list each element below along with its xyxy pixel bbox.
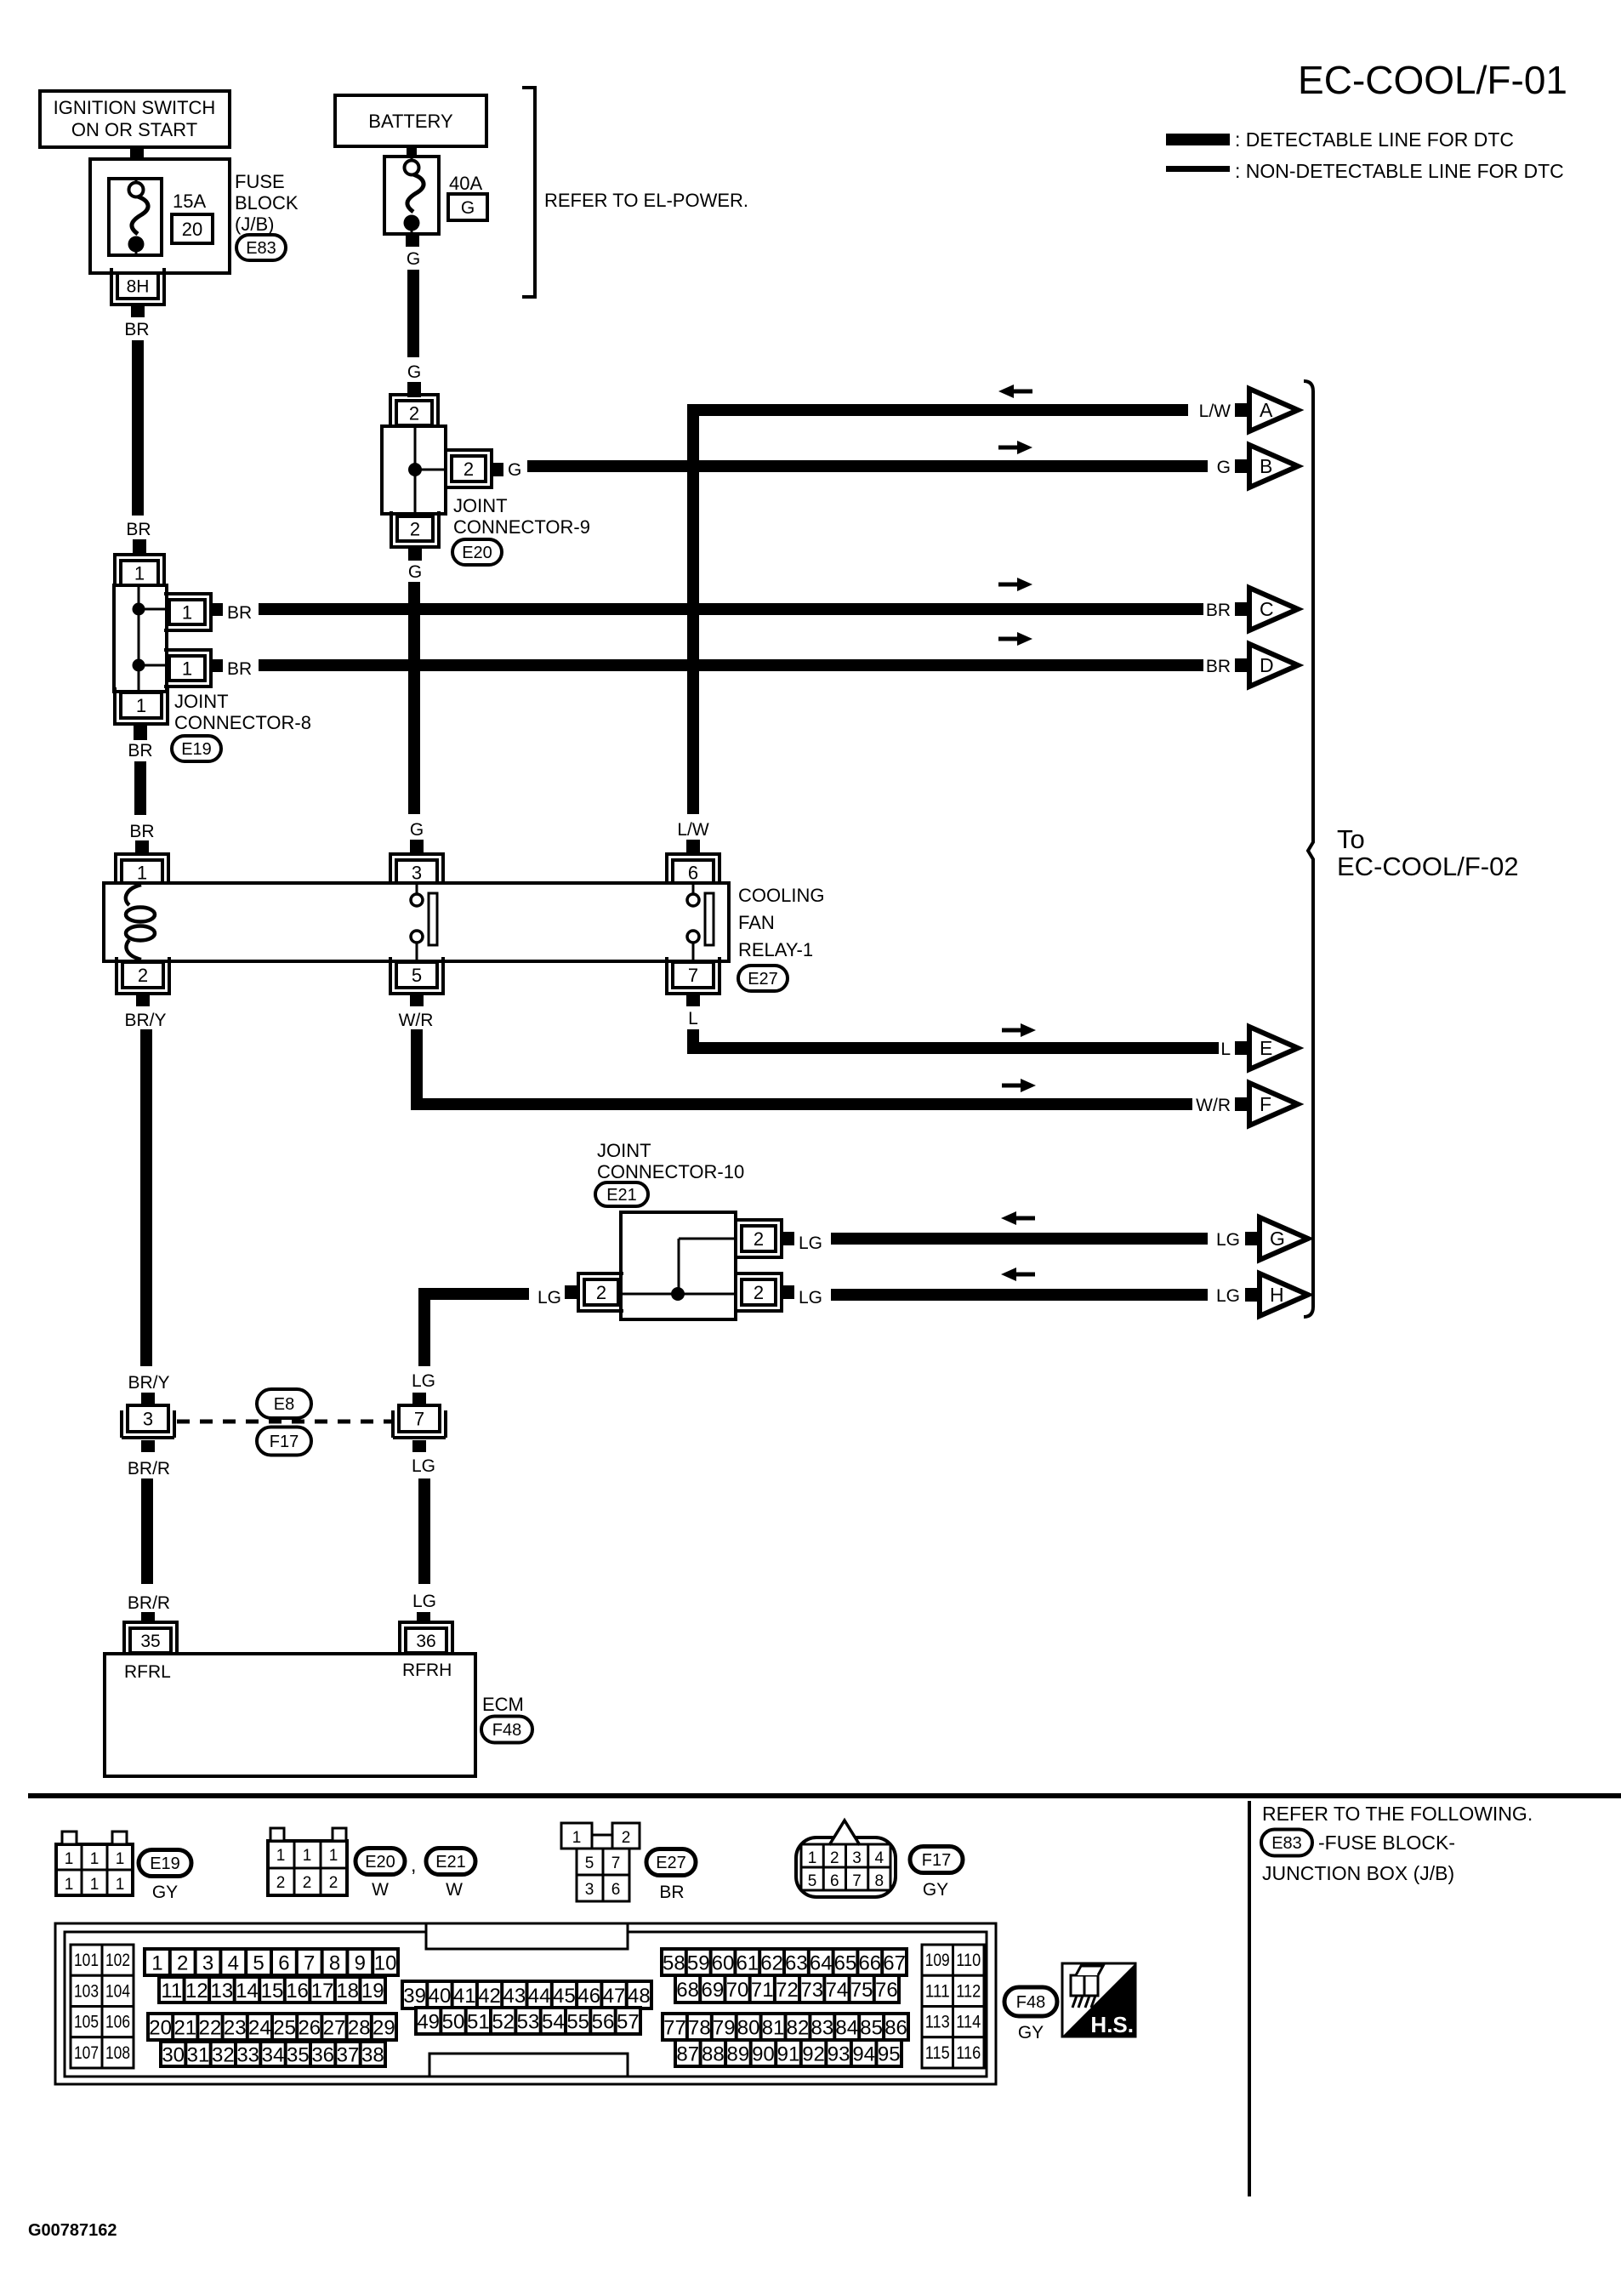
svg-text:44: 44 (528, 1985, 551, 2008)
svg-text:3: 3 (202, 1952, 213, 1975)
relay pin 5 box (396, 962, 437, 988)
svg-text:E20: E20 (365, 1853, 395, 1872)
svg-text:FUSE: FUSE (235, 171, 285, 192)
svg-text:COOLING: COOLING (738, 885, 824, 906)
svg-text:2: 2 (830, 1849, 839, 1867)
svg-text:RFRL: RFRL (124, 1662, 171, 1682)
svg-text:85: 85 (860, 2017, 883, 2040)
legend detectable line sample (1166, 134, 1230, 145)
footer divider vertical (1248, 1801, 1251, 2196)
svg-text:H.S.: H.S. (1090, 2012, 1134, 2037)
svg-text:4: 4 (228, 1952, 239, 1975)
svg-text:1: 1 (572, 1829, 582, 1847)
svg-text:(J/B): (J/B) (235, 214, 274, 235)
relay contact 6-7 (692, 885, 695, 894)
wire stub right lower of joint connector-8 (210, 659, 223, 672)
svg-text:BR/R: BR/R (128, 1459, 170, 1478)
svg-text:36: 36 (416, 1632, 435, 1651)
svg-text:E83: E83 (246, 239, 276, 258)
svg-text:60: 60 (712, 1952, 735, 1975)
wire LG to triangle G (831, 1233, 1208, 1245)
svg-text:30: 30 (162, 2044, 185, 2067)
svg-text:1: 1 (182, 601, 192, 623)
svg-text:: NON-DETECTABLE LINE FOR DTC: : NON-DETECTABLE LINE FOR DTC (1235, 160, 1564, 182)
svg-text:1: 1 (116, 1876, 125, 1894)
svg-text:1: 1 (182, 658, 192, 679)
svg-text:2: 2 (177, 1952, 188, 1975)
svg-text:2: 2 (622, 1829, 631, 1847)
cooling fan relay-1 body (104, 883, 729, 961)
svg-text:G: G (508, 460, 521, 480)
wire stub left of joint connector-10 (565, 1285, 578, 1299)
svg-text:1: 1 (137, 862, 147, 883)
svg-text:6: 6 (830, 1872, 839, 1890)
relay pin 2 box (122, 962, 163, 988)
wire BR to triangle D (259, 659, 1203, 671)
wire BR to relay pin 1 (134, 761, 146, 815)
joint connector-9 body (382, 426, 446, 514)
svg-text:17: 17 (311, 1980, 334, 2003)
svg-text:83: 83 (810, 2017, 833, 2040)
svg-text:72: 72 (776, 1979, 799, 2002)
svg-text:3: 3 (585, 1881, 594, 1899)
joint connector-8 pin 1 right upper (169, 600, 205, 624)
arrow on wire C (998, 583, 1019, 587)
svg-text:G00787162: G00787162 (28, 2221, 117, 2240)
joint connector-10 pin 2 right bottom (742, 1279, 776, 1305)
svg-text:70: 70 (726, 1979, 749, 2002)
refer to EL-POWER bracket (522, 88, 535, 297)
svg-text:76: 76 (875, 1979, 898, 2002)
svg-text:W: W (372, 1880, 389, 1900)
svg-text:61: 61 (736, 1952, 759, 1975)
wire L/W to triangle A with corner down to relay pin 6 (693, 410, 1188, 814)
svg-text:58: 58 (663, 1952, 685, 1975)
svg-text:64: 64 (810, 1952, 833, 1975)
svg-text:1: 1 (303, 1847, 312, 1865)
ECM pin grid (55, 1923, 996, 2084)
wire stub below relay pin 5 (410, 993, 424, 1006)
svg-text:59: 59 (687, 1952, 710, 1975)
arrow on wire A (1012, 390, 1032, 394)
svg-text:2: 2 (303, 1874, 312, 1892)
svg-text:7: 7 (414, 1408, 424, 1429)
dashed harness line E8-F17 (177, 1420, 391, 1424)
svg-text:88: 88 (702, 2043, 725, 2066)
svg-text:23: 23 (224, 2017, 247, 2040)
svg-text:87: 87 (676, 2043, 699, 2066)
svg-text:To: To (1337, 824, 1365, 854)
svg-text:EC-COOL/F-02: EC-COOL/F-02 (1337, 852, 1519, 881)
svg-text:3: 3 (412, 862, 422, 883)
connector ref E20 footer (355, 1849, 405, 1875)
svg-text:G: G (461, 198, 475, 218)
svg-text:2: 2 (409, 402, 419, 424)
connector ref E21 (595, 1182, 648, 1206)
svg-text:50: 50 (442, 2011, 465, 2034)
svg-text:F17: F17 (270, 1433, 299, 1451)
svg-text:CONNECTOR-9: CONNECTOR-9 (453, 516, 590, 538)
wire stub right top of joint connector-10 (781, 1232, 794, 1245)
connector icon E19 (56, 1844, 133, 1895)
wire stub above ECM pin 36 (417, 1612, 430, 1624)
svg-text:LG: LG (1216, 1230, 1240, 1250)
connector ref E20 (452, 539, 502, 565)
stub triangle H (1245, 1288, 1259, 1302)
svg-text:E8: E8 (274, 1395, 294, 1414)
svg-text:12: 12 (185, 1980, 208, 2003)
svg-text:G: G (1270, 1228, 1285, 1250)
wire G battery vertical (407, 270, 419, 357)
svg-text:G: G (407, 362, 421, 382)
connector ref E8 (257, 1389, 311, 1418)
svg-text:90: 90 (752, 2043, 775, 2066)
wire stub above ECM pin 35 (141, 1612, 155, 1624)
stub triangle A (1235, 403, 1248, 417)
svg-text:REFER TO THE FOLLOWING.: REFER TO THE FOLLOWING. (1262, 1803, 1533, 1825)
wire stub below relay pin 7 (686, 993, 700, 1006)
triangle G (1245, 1232, 1260, 1245)
svg-text:5: 5 (808, 1872, 817, 1890)
svg-text:E27: E27 (656, 1854, 686, 1872)
svg-text:5: 5 (585, 1854, 594, 1872)
svg-text:101: 101 (74, 1951, 99, 1970)
svg-text:LG: LG (799, 1233, 822, 1253)
svg-text:RELAY-1: RELAY-1 (738, 939, 813, 960)
arrow on wire G (1015, 1216, 1035, 1221)
svg-text:E19: E19 (150, 1854, 180, 1873)
wire stub right of joint connector-9 (491, 463, 503, 476)
stub triangle C (1235, 602, 1248, 616)
svg-text:BR: BR (128, 741, 152, 761)
svg-text:66: 66 (858, 1952, 881, 1975)
svg-text:109: 109 (925, 1951, 950, 1970)
svg-text:G: G (407, 249, 420, 269)
triangle C (1235, 602, 1249, 616)
svg-text:110: 110 (956, 1951, 981, 1970)
svg-text:2: 2 (596, 1282, 606, 1303)
wire stub battery to fuse (407, 145, 417, 158)
svg-text:BR: BR (1206, 657, 1231, 676)
svg-text:FAN: FAN (738, 912, 775, 933)
svg-text:G: G (408, 562, 422, 582)
svg-text:L: L (1220, 1040, 1231, 1059)
svg-text:L/W: L/W (1199, 402, 1231, 421)
pin 3 box at E8 (128, 1405, 168, 1432)
svg-text:105: 105 (74, 2013, 99, 2032)
svg-text:15A: 15A (173, 191, 206, 212)
svg-text:6: 6 (611, 1881, 621, 1899)
svg-text:LG: LG (412, 1371, 435, 1391)
svg-text:W/R: W/R (399, 1011, 434, 1030)
wire LG to ECM pin 36 (418, 1478, 430, 1584)
svg-text:2: 2 (754, 1228, 764, 1250)
wire BR/Y relay pin2 to connector E8 (140, 1029, 152, 1366)
svg-text:7: 7 (611, 1854, 621, 1872)
svg-text:108: 108 (105, 2043, 130, 2063)
wire BR ignition vertical (132, 340, 144, 516)
svg-text:C: C (1260, 598, 1274, 620)
svg-text:102: 102 (105, 1951, 130, 1970)
svg-text:29: 29 (373, 2017, 395, 2040)
svg-text:CONNECTOR-10: CONNECTOR-10 (597, 1161, 744, 1182)
svg-text:L/W: L/W (677, 820, 709, 840)
svg-text:103: 103 (74, 1981, 99, 2001)
svg-text:1: 1 (808, 1849, 817, 1867)
triangle A (1235, 403, 1249, 417)
svg-text:1: 1 (276, 1847, 286, 1865)
svg-text:ON OR START: ON OR START (71, 119, 197, 140)
svg-text:2: 2 (410, 518, 420, 539)
fuse 40A box (384, 157, 439, 234)
relay pin 7 box (673, 962, 714, 988)
wire stub above pin 3 box (141, 1393, 155, 1405)
ignition switch box (40, 91, 230, 147)
svg-text:104: 104 (105, 1981, 130, 2001)
svg-text:68: 68 (676, 1979, 699, 2002)
svg-text:E: E (1260, 1037, 1272, 1059)
connector ref F48 (481, 1717, 532, 1743)
bracket to EC-COOL/F-02 (1304, 381, 1313, 1317)
svg-text:54: 54 (542, 2011, 565, 2034)
svg-text:1: 1 (65, 1850, 74, 1868)
svg-text:W: W (446, 1880, 463, 1900)
connector ref E27 (738, 966, 788, 991)
wire W/R from relay pin 5 to triangle F (417, 1029, 1192, 1104)
svg-text:79: 79 (713, 2017, 736, 2040)
svg-text:115: 115 (925, 2043, 950, 2063)
svg-text:41: 41 (453, 1985, 476, 2008)
svg-text:1: 1 (151, 1952, 162, 1975)
svg-text:E21: E21 (435, 1853, 466, 1872)
svg-text:GY: GY (1018, 2023, 1044, 2042)
fuse 40A symbol (411, 157, 413, 168)
wire stub below 8H (131, 305, 145, 317)
svg-text:94: 94 (852, 2043, 875, 2066)
joint connector-10 pin 2 left (584, 1279, 618, 1305)
svg-text:69: 69 (701, 1979, 724, 2002)
connector ref E83 (236, 235, 286, 260)
joint connector-9 pin 2 bottom (397, 516, 433, 541)
svg-text:114: 114 (956, 2013, 981, 2032)
svg-text:BR/Y: BR/Y (124, 1011, 166, 1030)
arrow on wire F (1002, 1084, 1022, 1088)
svg-text:3: 3 (143, 1408, 153, 1429)
svg-text:112: 112 (956, 1981, 981, 2001)
arrow on wire E (1002, 1028, 1022, 1033)
pin 8H box (117, 273, 158, 299)
svg-text:11: 11 (161, 1980, 182, 2003)
wire stub above relay pin 1 (135, 840, 149, 854)
svg-text:REFER TO EL-POWER.: REFER TO EL-POWER. (544, 190, 748, 211)
svg-text:: DETECTABLE LINE FOR DTC: : DETECTABLE LINE FOR DTC (1235, 128, 1514, 151)
svg-text:111: 111 (925, 1981, 950, 2001)
svg-text:E21: E21 (606, 1186, 637, 1205)
wire stub below pin 7 box (412, 1440, 426, 1452)
joint connector-10 pin 2 right top (742, 1226, 776, 1251)
connector ref E83 footer (1261, 1830, 1312, 1856)
svg-text:47: 47 (603, 1985, 626, 2008)
svg-text:113: 113 (925, 2013, 950, 2032)
stub triangle B (1235, 459, 1248, 473)
svg-text:106: 106 (105, 2013, 130, 2032)
svg-text:13: 13 (211, 1980, 234, 2003)
svg-text:1: 1 (116, 1850, 125, 1868)
harness symbol H.S. (1062, 1963, 1135, 2037)
stub triangle D (1235, 658, 1248, 672)
connector icon E20/E21 (268, 1841, 347, 1895)
svg-text:8: 8 (874, 1872, 884, 1890)
ECM pin 36 box (406, 1628, 446, 1653)
svg-text:5: 5 (412, 965, 422, 986)
wire stub above joint connector-8 (133, 539, 146, 553)
stub triangle F (1235, 1097, 1248, 1111)
joint connector-9 pin 2 top (396, 401, 432, 425)
svg-text:2: 2 (138, 965, 148, 986)
svg-text:6: 6 (688, 862, 698, 883)
svg-text:2: 2 (464, 459, 474, 480)
fuse 15A symbol (135, 179, 138, 190)
svg-text:93: 93 (828, 2043, 850, 2066)
wire stub above relay pin 6 (686, 840, 700, 854)
arrow on wire B (998, 446, 1019, 450)
svg-text:52: 52 (492, 2011, 515, 2034)
svg-text:IGNITION SWITCH: IGNITION SWITCH (54, 97, 216, 118)
svg-text:-FUSE BLOCK-: -FUSE BLOCK- (1318, 1832, 1455, 1854)
svg-text:28: 28 (348, 2017, 371, 2040)
arrow on wire H (1015, 1273, 1035, 1277)
svg-text:51: 51 (467, 2011, 490, 2034)
svg-text:8H: 8H (127, 277, 150, 297)
svg-text:3: 3 (852, 1849, 862, 1867)
svg-text:BATTERY: BATTERY (368, 111, 453, 132)
svg-text:H: H (1270, 1284, 1284, 1306)
svg-text:F48: F48 (492, 1721, 521, 1740)
svg-text:18: 18 (336, 1980, 359, 2003)
svg-text:73: 73 (800, 1979, 823, 2002)
svg-text:A: A (1260, 399, 1273, 421)
svg-text:35: 35 (287, 2044, 310, 2067)
svg-text:JOINT: JOINT (174, 691, 229, 712)
joint connector-9 junction dot (408, 463, 422, 476)
svg-text:F48: F48 (1016, 1993, 1045, 2012)
wire stub below joint connector-9 (408, 547, 422, 561)
svg-text:14: 14 (236, 1980, 259, 2003)
svg-text:LG: LG (412, 1456, 435, 1476)
joint connector-9 pin 2 right (452, 456, 486, 481)
wire LG to triangle H (831, 1289, 1208, 1301)
fuse number box 20 (172, 214, 213, 243)
svg-text:32: 32 (212, 2044, 235, 2067)
wire G to relay pin 3 (408, 582, 420, 814)
svg-text:67: 67 (883, 1952, 906, 1975)
connector ref F17 (257, 1427, 311, 1456)
svg-text:89: 89 (727, 2043, 750, 2066)
svg-text:JUNCTION BOX (J/B): JUNCTION BOX (J/B) (1262, 1862, 1454, 1884)
svg-text:81: 81 (762, 2017, 785, 2040)
wire stub below 40A fuse (406, 232, 419, 247)
svg-text:62: 62 (760, 1952, 783, 1975)
svg-text:107: 107 (74, 2043, 99, 2063)
svg-text:74: 74 (826, 1979, 849, 2002)
svg-text:W/R: W/R (1196, 1096, 1231, 1115)
svg-text:7: 7 (304, 1952, 315, 1975)
svg-text:E20: E20 (462, 544, 492, 562)
wire LG from joint connector-10 down (424, 1294, 529, 1366)
svg-text:46: 46 (577, 1985, 600, 2008)
wire BR/R to ECM pin 35 (141, 1478, 153, 1584)
svg-text:22: 22 (199, 2017, 222, 2040)
svg-text:GY: GY (152, 1883, 178, 1902)
svg-text:JOINT: JOINT (597, 1140, 651, 1161)
relay pin 1 box (122, 860, 162, 885)
svg-text:91: 91 (777, 2043, 800, 2066)
svg-text:15: 15 (261, 1980, 284, 2003)
svg-text:80: 80 (737, 2017, 760, 2040)
svg-text:65: 65 (834, 1952, 857, 1975)
svg-text:1: 1 (136, 695, 146, 716)
svg-text:40A: 40A (449, 173, 482, 194)
svg-text:43: 43 (503, 1985, 526, 2008)
joint connector-8 body (114, 585, 167, 692)
separator line (28, 1793, 1621, 1798)
svg-text:57: 57 (617, 2011, 640, 2034)
connector icon F17 (796, 1837, 896, 1897)
ECM body (105, 1654, 475, 1776)
relay contact 3-5 (416, 885, 418, 894)
wire stub below relay pin 2 (136, 993, 150, 1006)
stub triangle E (1235, 1041, 1248, 1055)
svg-text:LG: LG (537, 1288, 561, 1308)
connector ref E19 (172, 736, 221, 761)
svg-text:GY: GY (923, 1880, 948, 1900)
svg-text:LG: LG (799, 1288, 822, 1308)
pin 7 box at F17 (399, 1405, 440, 1432)
relay pin 6 box (673, 860, 714, 885)
triangle D (1235, 658, 1249, 672)
wire stub right upper of joint connector-8 (210, 603, 223, 616)
svg-text:G: G (1217, 458, 1231, 477)
svg-text:BR: BR (124, 320, 149, 339)
joint connector-8 pin 1 bottom (121, 692, 162, 718)
fuse 15A symbol box (109, 179, 162, 255)
ECM pin 35 box (130, 1628, 171, 1653)
svg-text:B: B (1260, 455, 1272, 477)
svg-text:BR/Y: BR/Y (128, 1373, 169, 1393)
svg-text:E83: E83 (1271, 1834, 1302, 1853)
svg-text:116: 116 (956, 2043, 981, 2063)
svg-text:2: 2 (329, 1874, 338, 1892)
svg-text:92: 92 (802, 2043, 825, 2066)
svg-text:EC-COOL/F-01: EC-COOL/F-01 (1298, 58, 1567, 102)
svg-text:4: 4 (874, 1849, 884, 1867)
wire L from relay pin 7 to triangle E (693, 1029, 1219, 1048)
svg-text:26: 26 (298, 2017, 321, 2040)
wire stub above relay pin 3 (410, 840, 424, 854)
svg-text:D: D (1260, 654, 1274, 676)
stub triangle G (1245, 1232, 1259, 1245)
svg-text:G: G (410, 820, 424, 840)
svg-text:9: 9 (355, 1952, 366, 1975)
svg-text:63: 63 (785, 1952, 808, 1975)
svg-text:L: L (688, 1009, 698, 1028)
svg-text:BR: BR (126, 520, 151, 539)
connector icon E27 (561, 1823, 592, 1849)
svg-text:71: 71 (751, 1979, 774, 2002)
svg-text:27: 27 (323, 2017, 346, 2040)
wire stub right bottom of joint connector-10 (781, 1285, 794, 1299)
svg-text:2: 2 (754, 1282, 764, 1303)
